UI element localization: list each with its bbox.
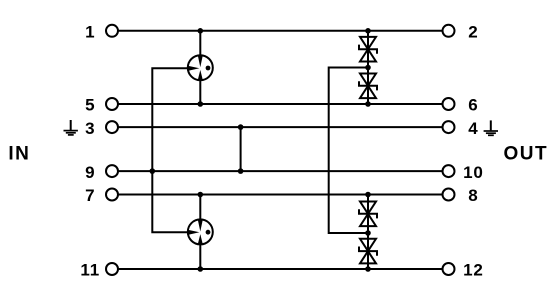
svg-text:5: 5 <box>85 96 95 115</box>
svg-text:3: 3 <box>85 119 95 138</box>
svg-text:8: 8 <box>468 186 478 205</box>
svg-text:4: 4 <box>468 119 478 138</box>
svg-text:12: 12 <box>463 261 484 280</box>
svg-text:10: 10 <box>463 163 484 182</box>
svg-text:OUT: OUT <box>503 143 548 164</box>
svg-text:1: 1 <box>85 23 95 42</box>
svg-text:7: 7 <box>85 186 95 205</box>
svg-text:2: 2 <box>468 23 478 42</box>
svg-text:IN: IN <box>8 143 30 164</box>
svg-text:6: 6 <box>468 96 478 115</box>
svg-text:9: 9 <box>85 163 95 182</box>
svg-text:11: 11 <box>80 261 100 280</box>
